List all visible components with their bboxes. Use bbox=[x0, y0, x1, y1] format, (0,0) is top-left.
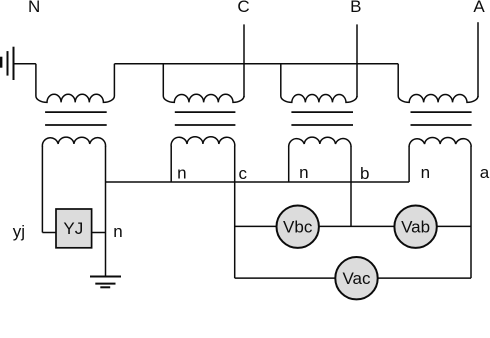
svg-text:b: b bbox=[360, 164, 369, 183]
svg-text:n: n bbox=[421, 163, 430, 182]
svg-text:B: B bbox=[350, 0, 361, 16]
svg-text:n: n bbox=[177, 164, 186, 183]
svg-text:Vbc: Vbc bbox=[283, 218, 313, 237]
svg-text:c: c bbox=[238, 164, 247, 183]
svg-text:A: A bbox=[473, 0, 485, 16]
svg-text:Vac: Vac bbox=[342, 269, 371, 288]
svg-text:N: N bbox=[28, 0, 40, 16]
svg-text:a: a bbox=[480, 163, 490, 182]
svg-text:C: C bbox=[237, 0, 249, 16]
svg-text:yj: yj bbox=[13, 222, 25, 241]
svg-text:YJ: YJ bbox=[63, 219, 83, 238]
svg-text:n: n bbox=[113, 222, 122, 241]
svg-text:Vab: Vab bbox=[401, 218, 430, 237]
svg-text:n: n bbox=[299, 163, 308, 182]
